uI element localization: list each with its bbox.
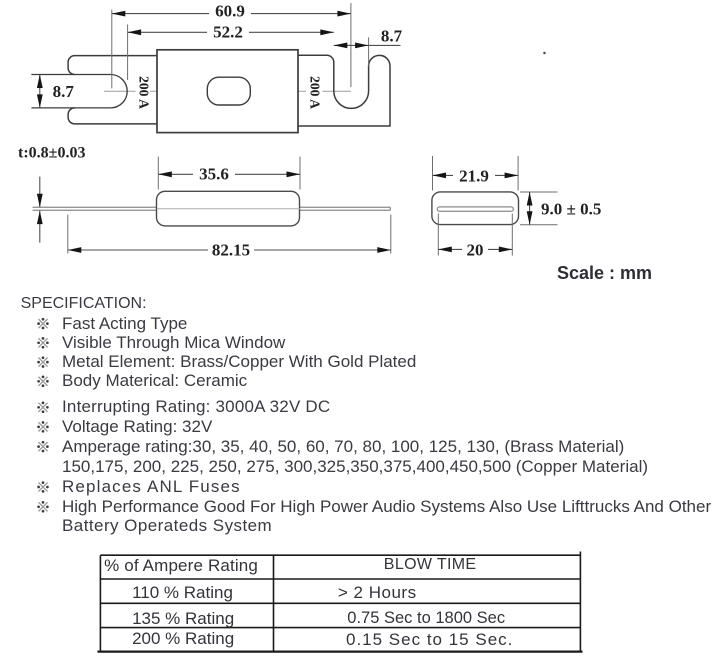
spec line 6: [62, 418, 212, 435]
side view body: [157, 191, 300, 226]
svg-text:9.0 ± 0.5: 9.0 ± 0.5: [541, 199, 601, 218]
dim 35.6 ext lines: [157, 157, 159, 190]
table header cell 2: [384, 556, 477, 573]
left terminal slot: [31, 75, 127, 108]
svg-text:21.9: 21.9: [459, 166, 489, 185]
table r3c1: [132, 610, 234, 627]
svg-text:35.6: 35.6: [199, 164, 229, 183]
svg-text:52.2: 52.2: [213, 23, 243, 42]
table r2c1: [132, 584, 233, 601]
spec line 8: [62, 478, 241, 495]
mica window: [207, 77, 250, 105]
svg-text:82.15: 82.15: [212, 240, 250, 259]
bullet 6: [37, 421, 49, 433]
spec line 5: [62, 398, 330, 415]
centerline top view: [104, 90, 136, 92]
dim 82.15 line: [68, 249, 208, 251]
table borders: [100, 554, 581, 556]
table r4c1: [132, 630, 234, 647]
dim 8.7 right ext line: [368, 37, 370, 66]
svg-text:8.7: 8.7: [381, 27, 403, 46]
svg-text:t:0.8±0.03: t:0.8±0.03: [18, 145, 85, 162]
dim 60.9 ext lines: [111, 10, 113, 89]
dim 35.6 line: [158, 173, 193, 175]
svg-text:200 A: 200 A: [307, 76, 322, 110]
side view strip through body: [157, 208, 300, 210]
spec line 7: [62, 438, 624, 455]
dim 82.15 ext lines: [67, 215, 69, 254]
svg-text:60.9: 60.9: [215, 1, 245, 20]
dim 21.9 line: [433, 174, 454, 176]
dim 8.7 right line: [334, 44, 401, 46]
spec line 1: [62, 315, 187, 332]
bullet 3: [37, 356, 49, 368]
spec line 3: [62, 353, 416, 370]
right terminal hook: [298, 55, 390, 126]
bullet 5: [37, 402, 49, 414]
dim 20 line: [438, 248, 462, 250]
spec line 9: [62, 498, 711, 515]
bullet 1: [37, 318, 49, 330]
spec line 2: [62, 334, 285, 351]
bullet 8: [37, 481, 49, 493]
bullet 2: [37, 337, 49, 349]
Scale label: [557, 265, 652, 282]
dim 52.2 line: [128, 31, 207, 33]
thickness dim arrows: [39, 177, 41, 208]
spec line 9b: [62, 517, 272, 534]
dim 21.9 ext lines: [432, 156, 434, 191]
left terminal fork: [68, 56, 157, 124]
spec line 7b: [62, 458, 648, 475]
reference dot: [543, 52, 546, 55]
dim 9.0 ext lines: [520, 191, 558, 193]
svg-text:20: 20: [467, 240, 484, 259]
svg-text:200 A: 200 A: [135, 76, 150, 110]
dim 9.0 line: [529, 192, 531, 225]
table r3c2: [347, 610, 505, 627]
bullet 7: [37, 441, 49, 453]
end view slot: [437, 207, 513, 211]
table r4c2: [346, 631, 513, 648]
side view element strip: [33, 206, 391, 208]
dim 8.7 left line: [39, 75, 41, 108]
spec line 4: [62, 372, 247, 389]
table r2c2: [338, 584, 417, 601]
bullet 4: [37, 376, 49, 388]
table header cell 1: [104, 557, 258, 574]
svg-text:8.7: 8.7: [53, 82, 75, 101]
fuse body (top view ceramic): [157, 50, 298, 133]
dim 52.2 ext line: [127, 25, 129, 81]
dim 20 ext lines: [437, 214, 439, 256]
bullet 9: [37, 501, 49, 513]
dim 60.9 line: [112, 13, 209, 15]
spec heading: [21, 295, 147, 312]
end view body: [432, 192, 519, 225]
